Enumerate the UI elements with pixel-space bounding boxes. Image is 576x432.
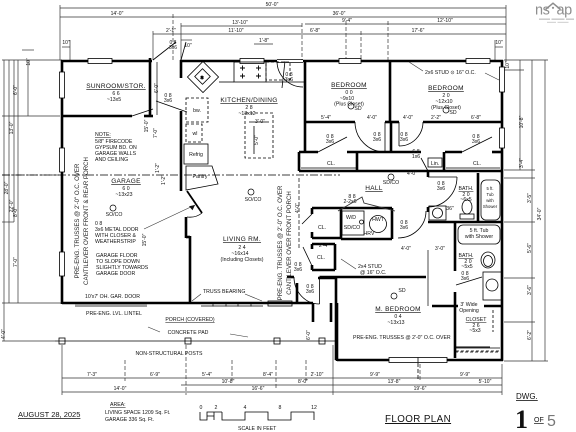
svg-text:10'x7' OH. GAR. DOOR: 10'x7' OH. GAR. DOOR <box>85 294 140 300</box>
svg-text:SD/CO: SD/CO <box>383 180 399 186</box>
svg-text:3'-5": 3'-5" <box>527 193 533 203</box>
svg-text:3x6: 3x6 <box>373 137 381 143</box>
svg-text:28'-0": 28'-0" <box>4 181 10 194</box>
svg-text:13'-0": 13'-0" <box>9 121 15 134</box>
svg-text:13'-10": 13'-10" <box>232 20 248 26</box>
svg-text:6'-8": 6'-8" <box>310 28 320 34</box>
svg-text:Opening: Opening <box>459 308 479 314</box>
svg-text:1'-2": 1'-2" <box>161 175 167 185</box>
svg-text:8: 8 <box>279 405 282 411</box>
svg-text:5'-4": 5'-4" <box>321 115 331 121</box>
svg-text:1'-8": 1'-8" <box>259 38 269 44</box>
svg-text:1: 1 <box>515 405 528 432</box>
svg-text:Shower: Shower <box>483 204 498 209</box>
svg-text:6'-0": 6'-0" <box>13 85 19 95</box>
svg-text:7'-0": 7'-0" <box>153 128 159 138</box>
svg-text:3x6: 3x6 <box>400 225 408 231</box>
svg-text:~13x23: ~13x23 <box>115 192 132 198</box>
svg-text:M. BEDROOM: M. BEDROOM <box>375 306 421 313</box>
svg-text:PRE-ENG. TRUSSES @ 2'-0" O.C.: PRE-ENG. TRUSSES @ 2'-0" O.C. OVER <box>353 335 451 341</box>
svg-text:3x6: 3x6 <box>306 289 314 295</box>
svg-text:~13x12: ~13x12 <box>238 111 255 117</box>
svg-text:4'-0": 4'-0" <box>403 115 413 121</box>
svg-text:~13x5: ~13x5 <box>107 97 121 103</box>
svg-text:HWT: HWT <box>372 217 385 223</box>
svg-text:10'-8": 10'-8" <box>222 379 235 385</box>
svg-text:50'-0": 50'-0" <box>266 2 279 8</box>
svg-text:TRUSS BEARING: TRUSS BEARING <box>203 289 245 295</box>
svg-text:BEDROOM: BEDROOM <box>331 82 367 89</box>
svg-text:5'-10": 5'-10" <box>479 379 492 385</box>
svg-text:AUGUST 28, 2025: AUGUST 28, 2025 <box>18 410 80 419</box>
svg-text:15'-0": 15'-0" <box>144 119 150 132</box>
svg-text:1'-2": 1'-2" <box>155 163 161 173</box>
svg-text:5 ft.: 5 ft. <box>487 186 494 191</box>
svg-text:10": 10" <box>184 43 192 49</box>
svg-text:~5x5: ~5x5 <box>461 264 473 270</box>
svg-text:HALL: HALL <box>365 185 383 192</box>
svg-text:3'-0": 3'-0" <box>435 246 445 252</box>
svg-text:(Plus Closet): (Plus Closet) <box>431 105 461 111</box>
svg-text:3x6: 3x6 <box>294 267 302 273</box>
svg-text:10": 10" <box>62 40 70 46</box>
svg-text:PRE-ENG. LVL. LINTEL: PRE-ENG. LVL. LINTEL <box>86 311 142 317</box>
svg-text:DWG.: DWG. <box>516 392 538 401</box>
svg-text:AREA:: AREA: <box>110 402 126 408</box>
svg-text:34'-0": 34'-0" <box>537 207 543 220</box>
svg-text:FLOOR PLAN: FLOOR PLAN <box>385 414 451 425</box>
svg-text:CANTILEVER OVER FRONT PORCH: CANTILEVER OVER FRONT PORCH <box>286 191 293 295</box>
svg-text:3x6: 3x6 <box>437 186 445 192</box>
svg-text:10": 10" <box>26 58 32 66</box>
svg-text:GARAGE: GARAGE <box>111 178 141 185</box>
svg-text:12'-10": 12'-10" <box>437 18 453 24</box>
svg-text:bw.: bw. <box>193 108 201 114</box>
svg-text:BEDROOM: BEDROOM <box>428 85 464 92</box>
svg-text:SO/CO: SO/CO <box>106 212 123 218</box>
svg-text:5: 5 <box>547 413 556 430</box>
svg-text:2'-4": 2'-4" <box>319 243 329 249</box>
svg-text:PORCH (COVERED): PORCH (COVERED) <box>165 317 215 323</box>
svg-text:NON-STRUCTURAL POSTS: NON-STRUCTURAL POSTS <box>136 351 204 357</box>
svg-text:ap: ap <box>557 3 573 19</box>
svg-text:OF: OF <box>534 417 544 424</box>
svg-text:3'-6": 3'-6" <box>527 285 533 295</box>
svg-text:4'-0": 4'-0" <box>295 203 301 213</box>
svg-text:9'-4": 9'-4" <box>342 18 352 24</box>
svg-text:3x6: 3x6 <box>169 45 177 51</box>
svg-text:6'-0": 6'-0" <box>306 330 312 340</box>
svg-text:~5x3: ~5x3 <box>469 328 481 334</box>
svg-text:3x6: 3x6 <box>472 139 480 145</box>
svg-text:3x6: 3x6 <box>164 98 172 104</box>
svg-text:PRE-ENG. TRUSSES @ 2'-0" O.C.: PRE-ENG. TRUSSES @ 2'-0" O.C. OVER <box>277 185 284 300</box>
svg-text:8'-4": 8'-4" <box>263 372 273 378</box>
svg-text:8'-0": 8'-0" <box>13 207 19 217</box>
svg-text:with: with <box>486 198 494 203</box>
svg-text:SD: SD <box>398 288 405 294</box>
svg-text:Tub: Tub <box>486 192 494 197</box>
svg-text:3'-0": 3'-0" <box>255 119 265 125</box>
svg-text:7'-0": 7'-0" <box>13 257 19 267</box>
svg-text:SD/CO: SD/CO <box>344 225 360 231</box>
svg-text:SO/CO: SO/CO <box>245 197 262 203</box>
svg-text:9'-9": 9'-9" <box>460 372 470 378</box>
svg-text:GARAGE 336 Sq. Ft.: GARAGE 336 Sq. Ft. <box>105 417 154 423</box>
svg-text:4'-0": 4'-0" <box>367 115 377 121</box>
svg-text:17'-6": 17'-6" <box>412 28 425 34</box>
svg-text:2'-2": 2'-2" <box>431 115 441 121</box>
svg-text:Refrig: Refrig <box>189 152 203 158</box>
svg-text:3x6: 3x6 <box>400 137 408 143</box>
svg-text:8'-0": 8'-0" <box>298 379 308 385</box>
svg-text:@ 16" O.C.: @ 16" O.C. <box>360 270 386 276</box>
svg-text:14'-0": 14'-0" <box>111 11 124 17</box>
svg-text:10": 10" <box>505 61 511 69</box>
svg-text:~13x13: ~13x13 <box>387 320 404 326</box>
svg-text:9'-9": 9'-9" <box>370 372 380 378</box>
svg-text:19'-6": 19'-6" <box>414 386 427 392</box>
svg-text:4'-0": 4'-0" <box>1 329 7 339</box>
svg-text:KITCHEN/DINING: KITCHEN/DINING <box>220 97 277 104</box>
svg-text:5'-0": 5'-0" <box>254 135 260 145</box>
svg-text:CONCRETE PAD: CONCRETE PAD <box>168 330 209 336</box>
svg-text:HRV: HRV <box>364 231 375 237</box>
svg-text:11'-10": 11'-10" <box>228 28 243 34</box>
svg-text:3x6: 3x6 <box>285 77 293 83</box>
svg-text:WEATHERSTRIP: WEATHERSTRIP <box>95 239 136 245</box>
svg-text:2'-10": 2'-10" <box>311 372 324 378</box>
svg-text:CANTILEVER OVER FRONT & REAR P: CANTILEVER OVER FRONT & REAR PORCH <box>83 157 90 285</box>
svg-text:1x6: 1x6 <box>412 154 420 160</box>
svg-text:3x6: 3x6 <box>326 139 334 145</box>
svg-text:3x6: 3x6 <box>461 276 469 282</box>
svg-text:CL.: CL. <box>318 225 326 231</box>
svg-text:wl: wl <box>193 131 198 137</box>
svg-text:Lin.: Lin. <box>431 161 439 167</box>
svg-text:LIVING RM.: LIVING RM. <box>223 236 261 243</box>
svg-text:4'-0": 4'-0" <box>401 246 411 252</box>
svg-text:6'-2": 6'-2" <box>527 330 533 340</box>
svg-text:AND CEILING: AND CEILING <box>95 157 128 163</box>
svg-text:13'-8": 13'-8" <box>388 379 401 385</box>
svg-text:2'-1": 2'-1" <box>166 28 176 34</box>
svg-text:LIVING SPACE 1209 Sq. Ft.: LIVING SPACE 1209 Sq. Ft. <box>105 410 170 416</box>
svg-text:7'-3": 7'-3" <box>87 372 97 378</box>
svg-text:4'-0": 4'-0" <box>407 171 417 177</box>
svg-text:Pantry: Pantry <box>193 174 208 180</box>
svg-text:CL.: CL. <box>317 255 325 261</box>
svg-text:GARAGE DOOR: GARAGE DOOR <box>96 271 135 277</box>
svg-text:15'-0": 15'-0" <box>142 233 148 246</box>
svg-text:SD: SD <box>449 110 456 116</box>
svg-text:ns: ns <box>535 3 550 19</box>
svg-text:with Shower: with Shower <box>465 234 494 240</box>
svg-text:(Including Closets): (Including Closets) <box>221 257 264 263</box>
svg-text:14'-0": 14'-0" <box>114 386 127 392</box>
svg-text:16'-6": 16'-6" <box>252 386 265 392</box>
svg-text:PRE-ENG. TRUSSES @ 2'-0" O.C.: PRE-ENG. TRUSSES @ 2'-0" O.C. OVER <box>74 163 81 278</box>
svg-text:2: 2 <box>215 405 218 411</box>
svg-text:6'-9": 6'-9" <box>150 372 160 378</box>
svg-text:S: S <box>201 75 204 80</box>
svg-text:10'-8": 10'-8" <box>519 115 525 128</box>
svg-text:SUNROOM/STOR.: SUNROOM/STOR. <box>86 83 145 90</box>
svg-text:SD: SD <box>354 106 361 112</box>
svg-text:W/D: W/D <box>346 215 356 221</box>
svg-text:0: 0 <box>200 405 203 411</box>
svg-text:5'-6": 5'-6" <box>527 243 533 253</box>
svg-text:3'-4": 3'-4" <box>519 158 525 168</box>
svg-text:12: 12 <box>311 405 317 411</box>
svg-text:36": 36" <box>446 206 454 212</box>
svg-text:CL.: CL. <box>327 161 335 167</box>
svg-text:4: 4 <box>244 405 247 411</box>
svg-text:36'-0": 36'-0" <box>333 11 346 17</box>
svg-text:6'-8": 6'-8" <box>471 115 481 121</box>
svg-text:SCALE IN FEET: SCALE IN FEET <box>238 426 277 432</box>
svg-text:~6x5: ~6x5 <box>460 197 472 203</box>
svg-text:CL.: CL. <box>473 161 481 167</box>
svg-text:10": 10" <box>495 40 503 46</box>
svg-text:5'-4": 5'-4" <box>202 372 212 378</box>
svg-text:2x6 STUD ⊙ 16" O.C.: 2x6 STUD ⊙ 16" O.C. <box>425 70 476 76</box>
svg-text:NOTE:: NOTE: <box>95 132 111 138</box>
svg-text:6'-0": 6'-0" <box>154 83 160 93</box>
